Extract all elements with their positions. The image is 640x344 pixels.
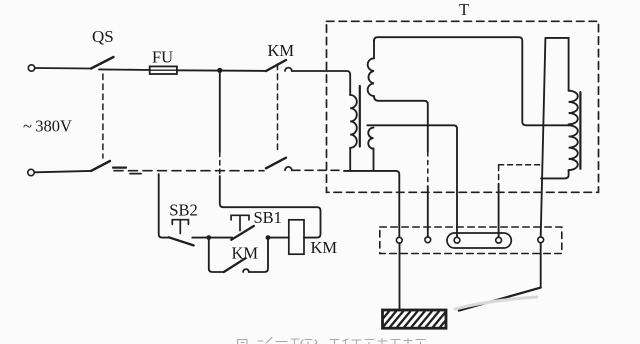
- wire tap 1 to terminal 2: [374, 96, 428, 152]
- wire QS to FU: [99, 68, 150, 71]
- wire SB1 to node A: [209, 237, 232, 239]
- switch QS pole 1 blade: [91, 57, 114, 69]
- wire aux to node B: [249, 240, 268, 272]
- button SB2 blade: [169, 237, 194, 245]
- top rail wire: [374, 37, 569, 125]
- switch QS pole 2 blade: [91, 161, 110, 171]
- KM contact 2 hook: [285, 167, 292, 170]
- terminal block dashed box: [380, 227, 562, 254]
- caption clipped glyph tops: [238, 338, 426, 344]
- button SB2 cap: [172, 220, 188, 234]
- wire terminal 4: [498, 184, 500, 237]
- wire electrode right: [540, 243, 542, 288]
- wire FU to KM: [177, 69, 266, 72]
- wire secondary top feed: [373, 40, 375, 58]
- wire W3 bottom: [541, 170, 569, 178]
- secondary winding W3 upper: [569, 91, 578, 125]
- button SB1 blade: [231, 226, 254, 240]
- terminal 3: [454, 237, 460, 243]
- transformer T dashed enclosure: [327, 21, 599, 192]
- contactor KM main contact 1 blade: [266, 60, 286, 71]
- workpiece hatched: [383, 310, 447, 328]
- button SB1 cap: [231, 215, 249, 230]
- terminal 5: [538, 237, 544, 243]
- coil KM: [289, 220, 304, 254]
- electrode arm: [459, 288, 541, 311]
- terminal bottom-left supply: [28, 169, 34, 175]
- core bar left: [359, 86, 361, 147]
- wire primary bottom: [349, 148, 351, 171]
- terminal 1: [396, 237, 402, 243]
- wire node A to SB2: [192, 237, 209, 239]
- wire SB2 left leg: [159, 174, 169, 238]
- wire KM to transformer primary: [292, 71, 350, 95]
- wire coil to SB1: [268, 237, 289, 239]
- wire bottom broken segment: [113, 167, 126, 169]
- node B: [266, 235, 271, 240]
- svg-text:SB2: SB2: [169, 201, 197, 220]
- KM contact 1 hook: [285, 68, 292, 71]
- wire link top right: [541, 38, 569, 237]
- svg-text:KM: KM: [268, 41, 295, 60]
- wire tap 2 to terminal 3: [367, 125, 457, 237]
- wire bottom supply to QS: [34, 171, 91, 172]
- contact KM aux blade: [224, 258, 246, 272]
- tap link stadium: [447, 233, 511, 248]
- KM aux hook: [243, 269, 249, 272]
- terminal 2: [425, 237, 431, 243]
- svg-text:KM: KM: [232, 243, 259, 262]
- node junction on top line: [217, 68, 222, 73]
- svg-text:QS: QS: [92, 27, 114, 46]
- node A: [206, 235, 211, 240]
- svg-text:FU: FU: [152, 48, 173, 67]
- QS linkage dashed: [102, 74, 104, 158]
- arm blur streak: [455, 297, 537, 309]
- fuse FU: [150, 66, 177, 74]
- wire electrode left: [399, 243, 401, 309]
- wire control drop from node: [219, 73, 221, 152]
- terminal 4: [496, 237, 502, 243]
- wire top supply to QS: [35, 67, 91, 70]
- self hold branch down: [209, 238, 224, 272]
- wire KM2 to transformer: [292, 169, 342, 171]
- wire secondary bottom: [373, 149, 375, 171]
- svg-text:~ 380V: ~ 380V: [23, 117, 72, 136]
- dashed link to terminal 4: [499, 164, 540, 166]
- secondary winding W2 lower: [368, 128, 373, 149]
- terminal top-left supply: [28, 65, 34, 71]
- primary winding W1: [350, 95, 357, 148]
- secondary winding W2 upper: [368, 58, 374, 96]
- svg-text:KM: KM: [311, 238, 338, 257]
- secondary winding W3 lower: [569, 125, 578, 170]
- KM linkage dashed: [277, 64, 279, 154]
- contactor KM main contact 2 blade: [266, 158, 286, 169]
- svg-text:SB1: SB1: [254, 208, 282, 227]
- core bar right: [579, 92, 581, 169]
- svg-text:T: T: [459, 0, 469, 19]
